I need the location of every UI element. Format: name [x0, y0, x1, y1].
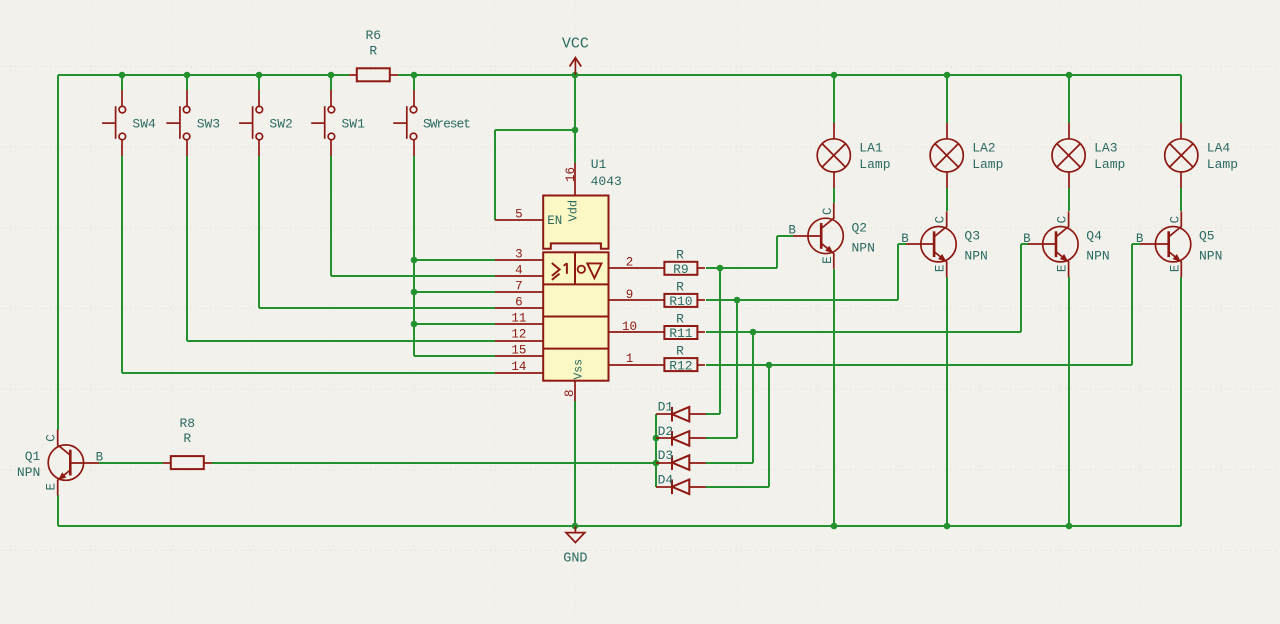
svg-text:R: R	[369, 43, 377, 58]
svg-text:GND: GND	[563, 552, 587, 567]
svg-text:Lamp: Lamp	[972, 157, 1003, 172]
svg-text:Q1: Q1	[25, 449, 41, 464]
svg-text:E: E	[45, 483, 59, 491]
svg-text:E: E	[934, 265, 948, 273]
svg-text:1: 1	[626, 352, 634, 366]
svg-text:R9: R9	[673, 262, 689, 277]
svg-text:B: B	[1023, 232, 1031, 246]
svg-text:14: 14	[511, 360, 526, 374]
svg-text:C: C	[1056, 216, 1070, 224]
svg-text:R: R	[676, 279, 684, 294]
svg-text:C: C	[821, 208, 835, 216]
svg-text:R: R	[676, 312, 684, 327]
svg-text:NPN: NPN	[964, 249, 987, 264]
svg-text:5: 5	[515, 207, 523, 221]
svg-text:SW2: SW2	[269, 117, 292, 132]
svg-text:SW4: SW4	[132, 117, 156, 132]
svg-text:NPN: NPN	[1086, 249, 1109, 264]
svg-text:E: E	[1056, 265, 1070, 273]
svg-text:E: E	[821, 256, 835, 264]
svg-text:LA2: LA2	[972, 140, 995, 155]
svg-text:R: R	[183, 431, 191, 446]
svg-text:B: B	[96, 450, 104, 464]
svg-text:R: R	[676, 344, 684, 359]
svg-text:NPN: NPN	[1199, 249, 1222, 264]
svg-text:D1: D1	[658, 400, 674, 415]
svg-text:R6: R6	[365, 28, 381, 43]
svg-text:R: R	[676, 247, 684, 262]
svg-text:4: 4	[515, 264, 523, 278]
svg-text:LA4: LA4	[1207, 140, 1231, 155]
svg-text:Q4: Q4	[1086, 229, 1102, 244]
svg-text:R11: R11	[669, 326, 693, 341]
svg-text:B: B	[901, 232, 909, 246]
svg-text:2: 2	[626, 256, 634, 270]
svg-text:SW1: SW1	[342, 117, 366, 132]
svg-text:B: B	[788, 224, 796, 238]
svg-text:U1: U1	[591, 157, 607, 172]
svg-text:SWreset: SWreset	[423, 117, 470, 132]
svg-text:9: 9	[626, 288, 634, 302]
svg-text:10: 10	[622, 320, 637, 334]
svg-text:Lamp: Lamp	[859, 157, 890, 172]
svg-text:SW3: SW3	[197, 117, 220, 132]
svg-text:VCC: VCC	[562, 36, 589, 53]
svg-text:16: 16	[564, 167, 578, 182]
svg-text:LA3: LA3	[1094, 140, 1117, 155]
svg-text:D3: D3	[658, 448, 674, 463]
svg-text:15: 15	[511, 344, 526, 358]
svg-text:Lamp: Lamp	[1094, 157, 1125, 172]
svg-text:Lamp: Lamp	[1207, 157, 1238, 172]
svg-text:8: 8	[563, 390, 577, 398]
svg-text:D4: D4	[658, 472, 674, 487]
svg-text:C: C	[934, 216, 948, 224]
svg-text:R10: R10	[669, 294, 692, 309]
svg-text:Q2: Q2	[852, 220, 868, 235]
svg-text:R12: R12	[669, 358, 692, 373]
svg-text:EN: EN	[547, 214, 562, 228]
svg-text:NPN: NPN	[17, 465, 40, 480]
svg-text:NPN: NPN	[852, 240, 875, 255]
svg-text:C: C	[1168, 216, 1182, 224]
svg-text:7: 7	[515, 279, 523, 293]
svg-text:Vss: Vss	[573, 359, 586, 380]
svg-text:D2: D2	[658, 424, 674, 439]
svg-text:Q3: Q3	[964, 229, 980, 244]
svg-text:4043: 4043	[591, 174, 622, 189]
svg-text:Vdd: Vdd	[566, 200, 580, 222]
svg-text:R8: R8	[179, 416, 195, 431]
svg-text:LA1: LA1	[859, 140, 883, 155]
svg-text:Q5: Q5	[1199, 229, 1215, 244]
svg-text:B: B	[1136, 232, 1144, 246]
svg-text:3: 3	[515, 247, 523, 261]
svg-text:6: 6	[515, 296, 523, 310]
svg-text:11: 11	[511, 312, 526, 326]
svg-text:C: C	[45, 434, 59, 442]
svg-text:12: 12	[511, 328, 526, 342]
svg-text:E: E	[1168, 265, 1182, 273]
